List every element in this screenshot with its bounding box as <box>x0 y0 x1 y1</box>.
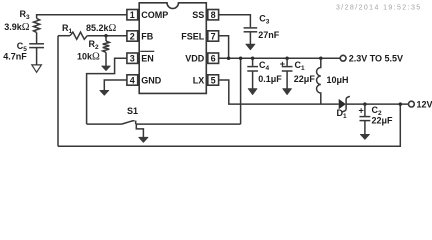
svg-text:3: 3 <box>130 54 135 64</box>
svg-text:S1: S1 <box>127 106 138 116</box>
ground below C2 <box>360 134 369 139</box>
svg-text:12V: 12V <box>417 100 432 110</box>
svg-text:GND: GND <box>141 75 162 85</box>
pin 6 box <box>208 53 219 63</box>
svg-text:4.7nF: 4.7nF <box>3 52 27 62</box>
svg-text:3/28/2014 19:52:35: 3/28/2014 19:52:35 <box>336 5 422 12</box>
switch S1 <box>87 123 122 125</box>
node C4/VDD <box>251 56 255 60</box>
svg-text:SS: SS <box>192 10 204 20</box>
svg-text:2: 2 <box>130 31 135 41</box>
wire R1 left branch down to bottom rail <box>57 36 59 147</box>
svg-text:85.2kΩ: 85.2kΩ <box>86 23 117 34</box>
wire D1 to 12V terminal <box>346 103 408 105</box>
svg-text:FSEL: FSEL <box>181 31 205 41</box>
svg-text:VDD: VDD <box>185 54 205 64</box>
svg-text:FB: FB <box>141 31 153 41</box>
pin 3 box <box>127 53 138 63</box>
svg-text:2.3V TO 5.5V: 2.3V TO 5.5V <box>349 54 403 64</box>
wire EN pin3 to switch <box>87 58 127 124</box>
ground below C3 <box>246 44 255 50</box>
node C2 <box>363 102 367 106</box>
op-amp U1 (regulator IC body with notch) <box>139 3 206 94</box>
svg-text:+: + <box>359 105 364 115</box>
svg-text:5: 5 <box>211 75 216 85</box>
wire pin8 to C3 <box>219 15 251 28</box>
wire switch to VDD line <box>240 58 242 124</box>
svg-text:6: 6 <box>211 54 216 64</box>
svg-text:0.1μF: 0.1μF <box>258 74 282 84</box>
pin 4 box <box>127 75 138 85</box>
pin 7 box <box>208 31 219 41</box>
capacitor C5 <box>29 43 44 45</box>
wire pin7 FSEL to VDD line <box>219 36 229 59</box>
svg-text:10kΩ: 10kΩ <box>77 52 100 63</box>
ground below R2 <box>102 66 111 71</box>
svg-text:3.9kΩ: 3.9kΩ <box>4 22 30 33</box>
svg-text:+: + <box>280 59 285 69</box>
wire pin1 to R3 <box>37 15 127 19</box>
pin 8 box <box>208 10 219 20</box>
svg-text:10μH: 10μH <box>327 75 349 85</box>
svg-text:8: 8 <box>211 10 216 20</box>
capacitor C3 <box>244 27 258 29</box>
svg-text:4: 4 <box>130 75 135 85</box>
terminal 12V <box>409 101 415 107</box>
resistor R1 <box>58 35 70 37</box>
svg-text:EN: EN <box>141 54 154 64</box>
ground below C5 <box>32 65 42 72</box>
terminal 2.3V-5.5V <box>340 55 346 61</box>
node pin7/VDD <box>227 56 231 60</box>
ground below pin4 <box>100 90 109 95</box>
VDD output line <box>219 57 341 59</box>
ground below C4 <box>248 89 257 95</box>
inductor L1 10uH <box>317 58 321 104</box>
bottom rail wire <box>58 104 400 146</box>
wire GND pin4 hook <box>104 80 127 91</box>
pin 5 box <box>208 75 219 85</box>
svg-text:27nF: 27nF <box>258 30 280 40</box>
svg-text:22μF: 22μF <box>294 74 316 84</box>
ground below C1 <box>283 89 292 95</box>
pin 1 box <box>127 10 138 20</box>
svg-text:22μF: 22μF <box>372 116 394 126</box>
node L1/VDD <box>319 56 323 60</box>
node bottom rail riser <box>399 102 403 106</box>
svg-text:7: 7 <box>211 31 216 41</box>
resistor R2 <box>105 36 107 41</box>
svg-text:LX: LX <box>193 75 205 85</box>
svg-text:1: 1 <box>130 10 135 20</box>
resistor R3 <box>34 18 40 32</box>
capacitor C4 <box>252 58 254 66</box>
svg-text:COMP: COMP <box>141 10 168 20</box>
wire pin5 LX down and right <box>219 80 339 104</box>
node switch riser/VDD <box>239 56 243 60</box>
pin 2 box <box>127 31 138 41</box>
diode D1 (zener) <box>339 99 346 109</box>
node C1/VDD <box>285 56 289 60</box>
node FB junction <box>104 34 108 38</box>
ground hook at switch <box>136 124 143 138</box>
